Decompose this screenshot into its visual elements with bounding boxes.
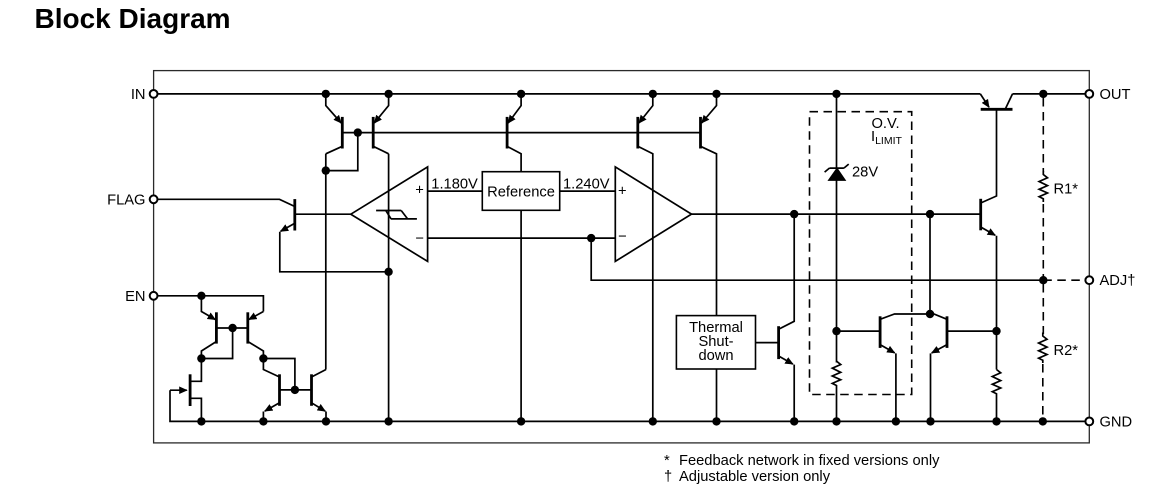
resistor R2 bbox=[1039, 333, 1047, 364]
wire zener branch down to sense base node bbox=[836, 180, 838, 362]
svg-text:IN: IN bbox=[131, 87, 146, 103]
svg-text:down: down bbox=[698, 348, 733, 364]
terminal FLAG bbox=[150, 195, 158, 203]
svg-text:28V: 28V bbox=[852, 164, 878, 180]
svg-text:+: + bbox=[618, 184, 627, 200]
node junction on Q1 collector bbox=[322, 166, 330, 174]
svg-text:O.V.: O.V. bbox=[872, 116, 900, 132]
wire Reference output to U2 + input bbox=[560, 190, 616, 192]
resistor (driver emitter to GND) bbox=[992, 370, 1000, 422]
terminal ADJ bbox=[1085, 276, 1093, 284]
node EN mirror base junction bbox=[291, 386, 299, 394]
transistor Q16 (PNP pass transistor) bbox=[980, 94, 989, 107]
wire dashed ADJ stub to terminal bbox=[1043, 279, 1085, 281]
svg-text:EN: EN bbox=[125, 289, 145, 305]
wire EN input line bbox=[158, 296, 263, 312]
wire EN mirror base tie bbox=[263, 359, 311, 390]
svg-text:Block Diagram: Block Diagram bbox=[35, 3, 231, 34]
wire R2 dashed upper bbox=[1042, 284, 1044, 334]
transistor Q7 (EN pair left PNP) bbox=[201, 296, 215, 320]
wire R1 lower dashed to ADJ node bbox=[1042, 204, 1044, 280]
transistor Q5 (PNP feeding thermal shutdown, T2) bbox=[702, 94, 717, 123]
node GND rail junctions bbox=[197, 417, 205, 425]
transistor Q1 (top-left pair, left PNP) bbox=[326, 94, 341, 123]
transistor Q8 (EN pair right PNP) bbox=[249, 312, 264, 320]
wire U2 output line to driver base bbox=[692, 213, 981, 215]
node zener / sense base junction bbox=[832, 327, 840, 335]
svg-text:1.180V: 1.180V bbox=[431, 177, 478, 193]
resistor R1 bbox=[1039, 171, 1047, 202]
wire sense collectors up to U2 output bbox=[929, 214, 931, 314]
transistor Q3 (PNP above Reference) bbox=[508, 94, 521, 123]
transistor Q4 (PNP over error amp, T1) bbox=[639, 94, 653, 123]
svg-text:OUT: OUT bbox=[1100, 87, 1131, 103]
wire U1 + input to Reference (1.180V net) bbox=[428, 190, 483, 192]
svg-text:GND: GND bbox=[1100, 414, 1133, 430]
svg-text:†: † bbox=[664, 469, 672, 485]
svg-text:1.240V: 1.240V bbox=[563, 177, 610, 193]
wire thermal shutdown box bottom to GND bbox=[716, 369, 718, 421]
terminal GND bbox=[1085, 418, 1093, 426]
svg-text:ADJ†: ADJ† bbox=[1100, 273, 1136, 289]
wire IN rail (top supply rail) bbox=[158, 93, 980, 95]
node OUT line / R1 tap bbox=[1039, 90, 1047, 98]
wire sense base line left bbox=[837, 330, 881, 332]
hysteresis symbol inside U1 bbox=[376, 211, 417, 219]
border frame bbox=[154, 71, 1090, 443]
wire Q1 collector / diode tie vertical x=326 bbox=[325, 154, 327, 370]
wire sense right base to driver emitter node bbox=[947, 330, 997, 332]
node driver emitter / sense base junction bbox=[992, 327, 1000, 335]
node Q8 collector junction bbox=[259, 354, 267, 362]
diode D1 zener 28V bbox=[828, 168, 845, 180]
wire ADJ sense vertical bbox=[591, 238, 1043, 280]
box Reference bbox=[482, 172, 559, 211]
transistor Q12 (thermal shutdown NPN) bbox=[756, 342, 779, 344]
transistor Q14 (current limit sense right NPN) bbox=[946, 316, 949, 348]
svg-text:−: − bbox=[618, 229, 627, 245]
wire U1 - input line bbox=[428, 237, 616, 239]
transistor Q13 (current limit sense left NPN) bbox=[879, 316, 882, 348]
wire R2 lower dashed to GND bbox=[1042, 364, 1044, 421]
node minus line to ADJ tap bbox=[587, 234, 595, 242]
box Thermal Shut-down bbox=[676, 316, 755, 369]
transistor Q11 (EN mirror right NPN) bbox=[312, 370, 327, 378]
node IN rail junctions bbox=[322, 90, 330, 98]
resistor (current limit sense, left) bbox=[832, 361, 840, 421]
wire R1 dashed feedback (fixed versions) bbox=[1042, 98, 1044, 172]
node base-tie junction on base rail bbox=[354, 128, 362, 136]
terminal OUT bbox=[1085, 90, 1093, 98]
svg-text:−: − bbox=[415, 231, 424, 247]
box O.V. / ILIMIT dashed outline bbox=[810, 112, 912, 395]
wire overvoltage zener branch top bbox=[836, 94, 838, 168]
wire OUT line bbox=[1013, 93, 1086, 95]
op-amp U1 (comparator, points left, with hysteresis) bbox=[351, 167, 428, 262]
node U2 output / thermal shutdown collector bbox=[790, 210, 798, 218]
svg-text:Feedback network in fixed vers: Feedback network in fixed versions only bbox=[679, 453, 940, 469]
terminal EN bbox=[150, 292, 158, 300]
transistor Q15 (driver NPN) bbox=[979, 199, 982, 231]
transistor Q10 (EN mirror left NPN) bbox=[263, 359, 279, 378]
node EN junction bbox=[197, 292, 205, 300]
svg-text:Adjustable version only: Adjustable version only bbox=[679, 469, 831, 485]
node FLAG emitter to Q2 collector junction bbox=[384, 268, 392, 276]
transistor Q2 (top-left pair, right PNP) bbox=[374, 94, 388, 123]
node EN pair base junction bbox=[228, 324, 236, 332]
svg-text:R2*: R2* bbox=[1054, 343, 1079, 359]
transistor Q9 (startup, lower-left) bbox=[189, 374, 192, 406]
wire Q2 collector vertical x=388.6 down to GND rail bbox=[388, 154, 390, 422]
svg-text:+: + bbox=[415, 183, 424, 199]
node sense collector junction bbox=[926, 310, 934, 318]
transistor Q6 (FLAG output NPN) bbox=[158, 199, 295, 206]
wire base-tie from base rail down to Q1 collector bbox=[326, 133, 358, 171]
op-amp U2 (error amplifier, points right) bbox=[615, 167, 691, 262]
terminal IN bbox=[150, 90, 158, 98]
svg-text:*: * bbox=[664, 453, 670, 469]
svg-text:R1*: R1* bbox=[1054, 182, 1079, 198]
wire Reference bottom to GND rail bbox=[520, 210, 522, 421]
node Q7 collector junction bbox=[197, 354, 205, 362]
wire EN pair base tie bbox=[201, 328, 247, 359]
svg-text:FLAG: FLAG bbox=[107, 192, 145, 208]
svg-text:Reference: Reference bbox=[487, 184, 555, 200]
wire base rail of top PNP mirrors bbox=[342, 132, 700, 134]
node ADJ / feedback junction bbox=[1039, 276, 1047, 284]
node U2 output / current limit collector line bbox=[926, 210, 934, 218]
